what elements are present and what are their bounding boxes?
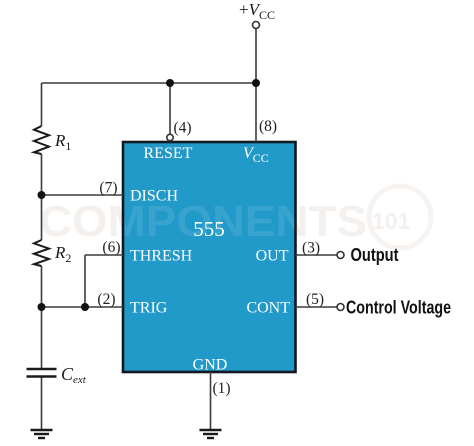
svg-text:(7): (7) bbox=[99, 180, 117, 197]
svg-text:101: 101 bbox=[372, 208, 411, 234]
svg-text:GND: GND bbox=[193, 357, 228, 374]
svg-text:TRIG: TRIG bbox=[130, 300, 168, 317]
svg-text:R2: R2 bbox=[54, 243, 71, 265]
svg-text:Output: Output bbox=[351, 244, 399, 265]
svg-text:DISCH: DISCH bbox=[130, 188, 178, 205]
svg-text:CONT: CONT bbox=[246, 300, 290, 317]
svg-text:THRESH: THRESH bbox=[130, 248, 193, 265]
svg-text:(6): (6) bbox=[102, 239, 120, 256]
svg-text:(3): (3) bbox=[302, 240, 320, 257]
svg-text:OUT: OUT bbox=[256, 248, 289, 265]
svg-text:(8): (8) bbox=[259, 118, 277, 135]
svg-text:+VCC: +VCC bbox=[239, 0, 275, 22]
svg-text:(4): (4) bbox=[174, 120, 192, 137]
svg-text:Control Voltage: Control Voltage bbox=[346, 297, 451, 318]
svg-text:Cext: Cext bbox=[61, 364, 87, 386]
svg-text:R1: R1 bbox=[54, 131, 71, 153]
svg-text:RESET: RESET bbox=[144, 145, 193, 162]
svg-text:(5): (5) bbox=[306, 291, 324, 308]
svg-text:(2): (2) bbox=[97, 291, 115, 308]
svg-text:(1): (1) bbox=[213, 380, 231, 397]
svg-text:555: 555 bbox=[193, 217, 225, 241]
